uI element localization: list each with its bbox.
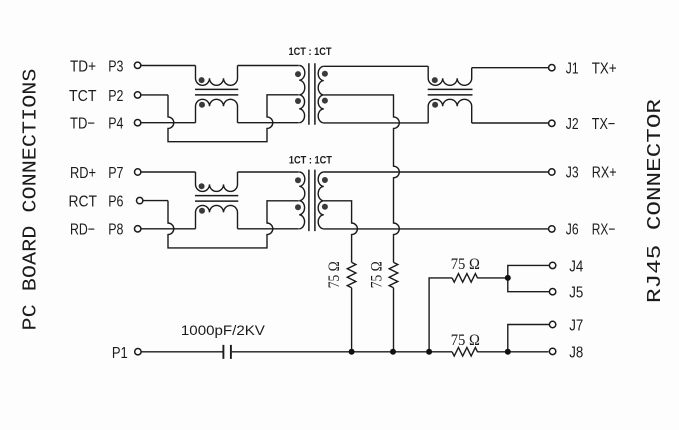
wire T2 secondary top to choke T3	[324, 65, 428, 67]
choke T1 top winding	[196, 66, 238, 86]
choke T4 top winding	[196, 172, 238, 191]
wire P8 to choke T4	[141, 228, 196, 230]
terminal P6	[137, 197, 143, 203]
wire TCT bypass to T2 primary CT	[168, 95, 299, 142]
wire T5 secondary CT down to R1	[324, 201, 358, 263]
choke T1 bottom winding	[196, 99, 238, 122]
choke T3 top winding	[428, 66, 472, 85]
polarity dot T5 secondary bottom	[322, 204, 328, 210]
wire P3 to choke T1	[141, 65, 196, 67]
svg-text:P6: P6	[108, 194, 123, 211]
transformer T5 primary winding	[299, 172, 305, 229]
resistor R4 75ohm (horizontal, on rail)	[452, 347, 477, 356]
terminal P3	[134, 62, 140, 68]
wire RCT bypass to T5 primary CT	[168, 201, 299, 248]
svg-text:1CT : 1CT: 1CT : 1CT	[289, 155, 332, 167]
junction J7/rail	[505, 349, 511, 355]
svg-text:P1: P1	[112, 345, 128, 362]
terminal J6	[549, 226, 555, 232]
transformer T2 primary winding	[299, 66, 305, 123]
svg-text:J2: J2	[566, 116, 579, 133]
svg-text:J7: J7	[569, 317, 583, 334]
polarity dot T4 top	[199, 183, 205, 189]
svg-text:P4: P4	[108, 116, 123, 133]
polarity dot T4 bottom	[199, 208, 205, 214]
svg-text:P7: P7	[108, 165, 123, 182]
svg-text:P3: P3	[108, 58, 123, 75]
wire T5 secondary top to J3	[324, 171, 549, 173]
wire P2 to jog	[141, 94, 168, 96]
polarity dot T5 primary bottom	[295, 204, 301, 210]
svg-text:RD+: RD+	[70, 165, 96, 182]
terminal P2	[134, 92, 140, 98]
terminal J7	[549, 321, 555, 327]
resistor R1 75ohm (vertical)	[347, 262, 356, 287]
resistor R3 75ohm (horizontal)	[452, 274, 477, 283]
svg-text:TX−: TX−	[592, 116, 616, 133]
wire choke T1 to transformer T2 primary top	[238, 65, 299, 67]
wire capacitor to ground rail / resistor R4	[232, 351, 452, 353]
svg-text:RX−: RX−	[592, 222, 616, 239]
polarity dot T3 top	[432, 77, 438, 83]
polarity dot T3 bottom	[432, 102, 438, 108]
svg-text:RCT: RCT	[69, 194, 98, 211]
junction J4/J5 node	[505, 275, 511, 281]
transformer T2 secondary winding	[318, 66, 324, 123]
svg-text:J8: J8	[569, 345, 583, 362]
wire node to J4	[508, 265, 550, 278]
svg-text:75 Ω: 75 Ω	[451, 256, 480, 273]
svg-text:RX+: RX+	[592, 165, 617, 182]
wire P7 to choke T4	[141, 171, 196, 173]
svg-text:RJ45 CONNECTOR: RJ45 CONNECTOR	[644, 99, 666, 303]
polarity dot T2 secondary bottom	[322, 98, 328, 104]
junction R2/rail	[390, 349, 396, 355]
resistor R2 75ohm (vertical)	[389, 262, 398, 287]
wire P1 to capacitor C1	[141, 351, 222, 353]
wire choke T3 to J2	[472, 122, 549, 124]
svg-text:1000pF/2KV: 1000pF/2KV	[181, 323, 265, 338]
svg-text:TD−: TD−	[70, 116, 95, 133]
wire node to J5	[508, 278, 550, 292]
svg-text:1CT : 1CT: 1CT : 1CT	[289, 46, 332, 58]
wire R4 to J8	[477, 351, 548, 353]
svg-text:75 Ω: 75 Ω	[368, 261, 385, 288]
transformer T5 core	[309, 170, 315, 232]
terminal P8	[135, 226, 141, 232]
choke T1 core	[195, 89, 238, 95]
svg-text:J3: J3	[566, 165, 579, 182]
svg-text:TX+: TX+	[592, 60, 617, 77]
polarity dot T5 secondary top	[322, 177, 328, 183]
wire choke T4 to transformer T5 primary bottom	[238, 228, 299, 230]
terminal J3	[549, 169, 555, 175]
svg-text:P8: P8	[108, 222, 123, 239]
polarity dot T2 secondary top	[322, 71, 328, 77]
junction R1/rail	[349, 349, 355, 355]
terminal P7	[135, 169, 141, 175]
choke T3 bottom winding	[428, 99, 472, 123]
wire choke T1 to transformer T2 primary bottom	[238, 122, 299, 124]
terminal J2	[549, 120, 555, 126]
terminal J1	[549, 65, 555, 71]
wire T5 secondary bottom to J6	[324, 228, 549, 230]
transformer T5 secondary winding	[318, 172, 324, 229]
svg-text:75 Ω: 75 Ω	[451, 332, 480, 349]
terminal J5	[549, 289, 555, 295]
choke T3 core	[428, 89, 473, 95]
wire P4 to choke T1	[141, 122, 196, 124]
wire R2 to ground rail	[393, 288, 395, 352]
wire choke T4 to transformer T5 primary top	[238, 171, 299, 173]
svg-text:TCT: TCT	[69, 88, 97, 105]
polarity dot T2 primary bottom	[295, 98, 301, 104]
wire T2 secondary CT down to R2	[324, 95, 400, 263]
svg-text:J5: J5	[569, 285, 583, 302]
wire rail to J7	[508, 325, 550, 352]
svg-text:75 Ω: 75 Ω	[326, 261, 343, 288]
polarity dot T2 primary top	[295, 71, 301, 77]
terminal P4	[134, 120, 140, 126]
polarity dot T5 primary top	[295, 177, 301, 183]
junction riser/rail	[426, 349, 432, 355]
wire R1 to ground rail	[351, 288, 353, 352]
svg-text:J1: J1	[566, 60, 579, 77]
svg-text:J4: J4	[569, 258, 583, 275]
wire choke T3 to J1	[472, 67, 549, 69]
svg-text:PC BOARD CONNECTIONS: PC BOARD CONNECTIONS	[20, 69, 42, 331]
terminal P1	[135, 349, 141, 355]
wire P6 to jog	[143, 200, 168, 202]
svg-text:J6: J6	[566, 222, 579, 239]
polarity dot T1 top	[199, 77, 205, 83]
choke T4 core	[195, 196, 238, 202]
capacitor C1 1000pF/2KV	[223, 345, 231, 359]
wire R3 to J4/J5 node	[477, 277, 508, 279]
svg-text:P2: P2	[108, 88, 123, 105]
wire T2 secondary bottom to choke T3	[324, 122, 428, 124]
svg-text:TD+: TD+	[70, 58, 96, 75]
terminal J4	[549, 262, 555, 268]
choke T4 bottom winding	[196, 205, 238, 228]
svg-text:RD−: RD−	[70, 222, 95, 239]
wire rail riser to resistor R3	[429, 278, 452, 352]
transformer T2 core	[309, 63, 315, 125]
terminal J8	[549, 348, 555, 354]
polarity dot T1 bottom	[199, 102, 205, 108]
